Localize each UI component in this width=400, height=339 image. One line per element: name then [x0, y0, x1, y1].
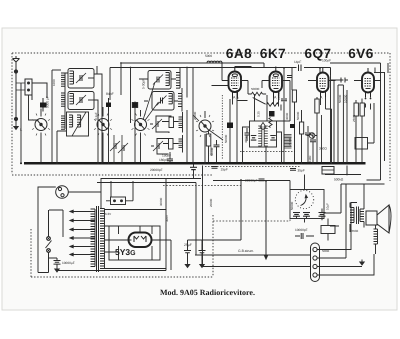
black cap 6K7: [269, 111, 275, 117]
power transformer secondary winding: [100, 209, 105, 269]
AVC dashed line bottom: [213, 219, 290, 222]
rail drops: [110, 63, 388, 123]
choke wire across caps: [188, 240, 242, 244]
svg-text:6A8: 6A8: [226, 46, 252, 61]
svg-text:5000 pF: 5000 pF: [46, 96, 50, 108]
svg-text:50000: 50000: [338, 94, 342, 103]
svg-text:5000: 5000: [205, 54, 212, 58]
tuning gang circle 2: [94, 114, 112, 136]
svg-text:20000: 20000: [209, 198, 213, 207]
svg-text:14pF: 14pF: [294, 60, 301, 64]
svg-text:6.3V: 6.3V: [105, 212, 111, 216]
top rail 2: [110, 68, 331, 76]
small box near output: [321, 226, 335, 234]
under 6K7 cathode parts: [281, 68, 311, 165]
svg-text:100pF: 100pF: [322, 59, 331, 63]
tube 6Q7: [317, 68, 329, 97]
wire gang diagonal circle4: [193, 115, 223, 140]
vertical wire x193: [192, 68, 194, 164]
AVC dashed line below bus: [205, 166, 300, 168]
connector strip: [311, 243, 320, 282]
power section dashed right: [212, 215, 214, 277]
svg-text:30000: 30000: [159, 197, 163, 206]
400ohm line: [101, 178, 201, 180]
svg-text:50000: 50000: [296, 111, 300, 120]
black cap above coil block: [290, 124, 295, 128]
extra small labels: [52, 79, 359, 253]
svg-text:Mod. 9A05 Radioricevitore.: Mod. 9A05 Radioricevitore.: [160, 288, 255, 297]
mains switch: [46, 210, 52, 273]
svg-text:20000: 20000: [193, 111, 197, 120]
tube 6K7 side wires: [262, 81, 290, 122]
6V6 cathode resistor: [354, 99, 364, 165]
svg-text:35pF: 35pF: [298, 169, 305, 173]
cap 15pF below bus: [212, 167, 218, 169]
extra cap symbols: [245, 76, 293, 142]
frame lower dashed line: [12, 174, 213, 176]
svg-text:0.25: 0.25: [257, 111, 261, 117]
RF coil L2: [61, 93, 65, 106]
wire 84pF down: [108, 111, 110, 164]
speaker: [366, 205, 391, 233]
cap 35pF right: [290, 169, 296, 171]
svg-text:300Ω: 300Ω: [285, 112, 289, 120]
wires right of RF boxes: [88, 66, 102, 164]
ground (antenna earth): [14, 124, 18, 130]
svg-text:10000pF: 10000pF: [295, 228, 308, 232]
black cap under 6A8: [227, 123, 233, 129]
right edge rails: [367, 63, 385, 180]
filter cap 25uF a: [184, 240, 191, 262]
svg-text:25000: 25000: [288, 137, 292, 146]
power section dashed bottom: [31, 276, 213, 278]
ground at output: [360, 260, 364, 266]
svg-text:300V: 300V: [165, 215, 169, 222]
volume potentiometer: [290, 175, 326, 223]
resistor zigzag 6K7 screen: [252, 92, 263, 96]
power transformer primary winding: [91, 209, 96, 267]
connector wires: [317, 184, 385, 275]
svg-text:G.B.strum.: G.B.strum.: [238, 249, 254, 253]
frame right: [389, 53, 391, 181]
wires IF2: [237, 90, 282, 164]
5Y3G enclosure: [109, 226, 160, 260]
svg-text:6V6: 6V6: [348, 46, 374, 61]
svg-text:5-30pF: 5-30pF: [142, 79, 146, 89]
right side vertical wires cluster: [331, 68, 349, 164]
antenna: [13, 56, 22, 164]
tube 6A8: [229, 67, 242, 98]
power transformer primary taps: [70, 210, 95, 256]
svg-text:10000: 10000: [344, 94, 348, 103]
mid coupling coil assembly between circle1 and circle2: [57, 112, 89, 164]
wires circles row to bus: [41, 107, 205, 164]
tube 6V6 side wires: [354, 81, 381, 110]
oscillator padder row 2: [151, 135, 183, 154]
ground power cap: [55, 267, 59, 273]
svg-text:0.1µF: 0.1µF: [94, 112, 98, 120]
ground bus bar: [24, 162, 366, 165]
schematic dashed frame: [12, 53, 390, 277]
vertical zigzag resistor: [269, 118, 272, 128]
svg-text:6K7: 6K7: [260, 46, 286, 61]
tube 6A8 side wires: [212, 67, 252, 105]
svg-text:350Ω: 350Ω: [319, 147, 327, 151]
svg-text:50000: 50000: [251, 87, 260, 91]
capacitor 5000pF (black block): [40, 96, 50, 111]
power section dashed left: [30, 229, 32, 277]
RF coil L1: [61, 73, 65, 86]
tuning gang circle 1: [32, 114, 50, 136]
osc coil hatched: [176, 73, 180, 89]
tube 6Q7 side wires: [308, 68, 336, 109]
RF coil L3: [61, 116, 65, 129]
svg-text:50000: 50000: [224, 134, 228, 143]
long vertical to output: [241, 180, 268, 259]
svg-text:1000: 1000: [52, 79, 56, 86]
tuning gang circle 3: [132, 114, 150, 136]
svg-text:500Ω: 500Ω: [322, 249, 330, 253]
tube 6K7: [270, 67, 283, 98]
rectifier output wires: [57, 179, 171, 271]
svg-text:180pF: 180pF: [159, 158, 168, 162]
hatched coil block: [284, 135, 292, 149]
tube 6V6: [362, 68, 374, 98]
svg-text:10000µF: 10000µF: [62, 261, 75, 265]
top B+ rail 1: [121, 63, 381, 68]
tuning gang circle 4: [196, 115, 214, 137]
wire antenna box down: [21, 70, 61, 164]
svg-text:50000: 50000: [290, 201, 294, 210]
power transformer core: [97, 206, 99, 272]
svg-text:30000: 30000: [210, 147, 214, 156]
oscillator box 1 (trimmer+coil): [148, 71, 171, 90]
svg-text:15pF: 15pF: [221, 168, 228, 172]
wire vertical x341: [324, 184, 341, 213]
resistor zigzag 6K7 cathode: [267, 103, 279, 107]
heater line below bus: [97, 166, 361, 267]
frame top: [12, 52, 390, 54]
field coil: [374, 225, 378, 254]
wires 6K7 network: [248, 81, 281, 122]
svg-text:10000: 10000: [277, 91, 281, 100]
oscillator box 2 (trimmer+coil): [152, 92, 174, 111]
components under 6A8: resistor 30000: [206, 134, 211, 146]
wires pilot lamp: [38, 178, 101, 273]
trimmer pair under circle2: [110, 141, 120, 151]
RF unit box 1 (coil + trimmer): [68, 69, 94, 89]
cap 10000pF power: [49, 258, 75, 267]
svg-text:25µF: 25µF: [184, 243, 192, 247]
oscillator padder row 1: trimmer,resistor,coil: [150, 112, 183, 133]
earth terminal: [14, 117, 17, 124]
output transformer: [350, 203, 364, 233]
wires output section: [330, 226, 339, 234]
svg-text:20000pF: 20000pF: [150, 168, 163, 172]
osc wires: [132, 68, 187, 165]
rectifier 5Y3G tube: [121, 233, 160, 248]
gang diagonal lines: [143, 82, 159, 121]
gang dotted link: [221, 95, 223, 160]
svg-text:350Ω: 350Ω: [351, 229, 359, 233]
frame left: [11, 53, 13, 174]
dashed AVC line 2: [240, 151, 295, 153]
right component box: [355, 138, 368, 150]
filter cap 25uF b: [199, 244, 206, 262]
under 6Q7 resistor 0.5M: [308, 97, 332, 164]
svg-text:500kΩ: 500kΩ: [334, 178, 344, 182]
RF unit box 2 (coil + trimmer): [68, 92, 94, 110]
pilot lamp: [56, 186, 69, 199]
antenna coupling box: [16, 79, 47, 100]
bottom long wires to connector: [195, 255, 311, 267]
resistor right of lamp: [106, 181, 133, 205]
IF transformer 2: [250, 121, 277, 147]
svg-text:1MΩ: 1MΩ: [308, 155, 312, 162]
cap 14pF on rail2: [299, 65, 321, 73]
svg-text:10µF: 10µF: [326, 203, 330, 210]
secondary taps: [105, 210, 167, 269]
box on bus right: [322, 167, 334, 175]
